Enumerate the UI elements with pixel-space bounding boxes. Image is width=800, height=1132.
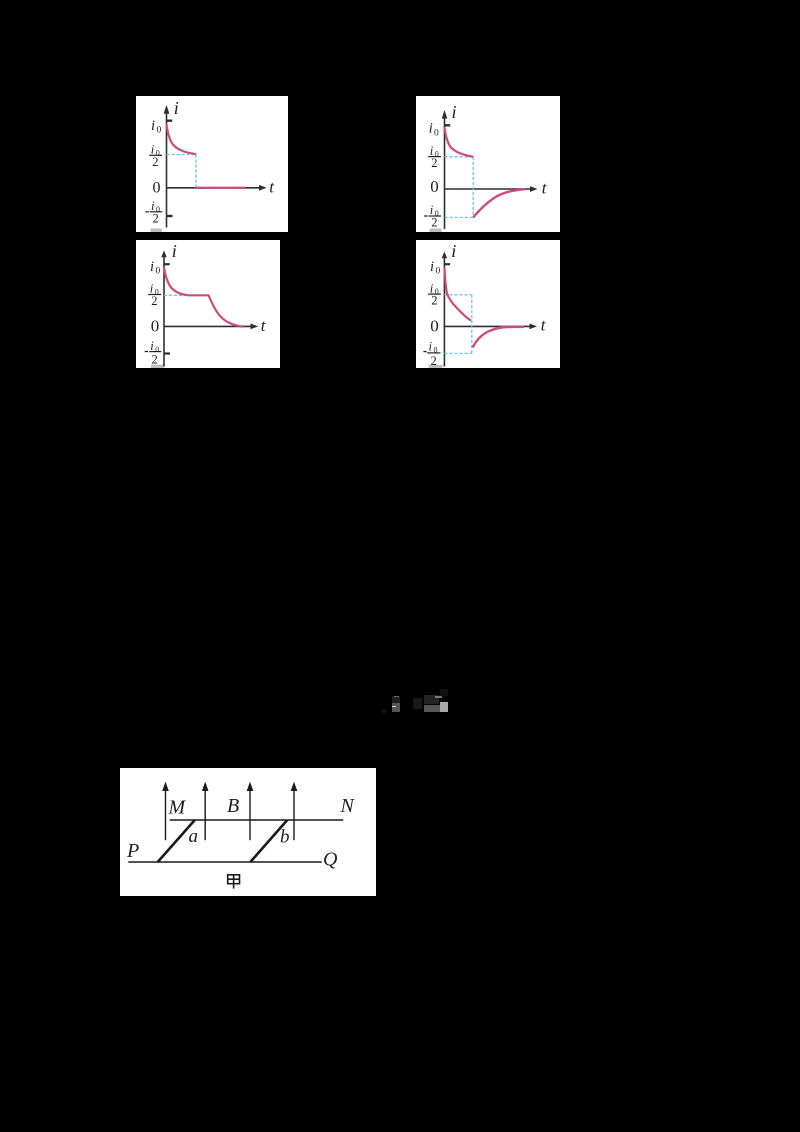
tick i0 (166, 119, 172, 121)
faint formula fragment: gray block left (392, 703, 400, 712)
rod a (158, 820, 195, 862)
svg-text:B: B (227, 795, 239, 817)
faint formula fragment: middle faint glyphs (413, 698, 423, 709)
svg-text:0: 0 (156, 267, 161, 277)
faint formula fragment: right glyph group (424, 695, 440, 704)
current decay curve (167, 124, 197, 154)
svg-text:N: N (340, 795, 356, 817)
svg-text:i: i (429, 121, 433, 137)
svg-text:a: a (189, 826, 199, 847)
tick i0 (444, 263, 450, 265)
svg-text:2: 2 (152, 155, 158, 169)
faint formula fragment: white dash (392, 706, 396, 708)
label -i0/2 fraction (145, 351, 148, 353)
y axis (163, 257, 165, 367)
faint formula fragment: bright box (440, 702, 448, 712)
gray remnant box (430, 229, 442, 233)
blue dashed -i0/2 (444, 352, 471, 354)
tick -i0/2 (166, 215, 172, 217)
faint formula fragment: dark glyph left (392, 696, 401, 703)
svg-text:i: i (150, 259, 154, 275)
blue dashed i0/2 (445, 156, 474, 158)
decay curve with plateau (164, 267, 240, 326)
steep decay curve (444, 267, 471, 321)
caption jia (228, 875, 240, 889)
blue dashed i0/2 (164, 294, 189, 296)
blue dashed vertical (471, 295, 473, 354)
svg-text:0: 0 (436, 267, 441, 277)
blue dashed level line (167, 154, 197, 156)
y axis (443, 258, 445, 367)
faint formula fragment: dim patch top-right (440, 689, 448, 696)
x axis (445, 188, 531, 190)
x axis (164, 325, 251, 327)
svg-text:0: 0 (157, 126, 162, 136)
y axis (166, 112, 168, 228)
svg-text:i: i (429, 340, 433, 354)
field arrow 4 (291, 782, 298, 841)
faint formula fragment: light speck row left (394, 696, 399, 697)
rail diagram panel (120, 768, 376, 896)
tick -i0/2 (164, 352, 170, 354)
svg-text:2: 2 (151, 294, 157, 308)
svg-text:i: i (430, 259, 434, 275)
svg-text:i: i (452, 102, 457, 122)
tick i0 (444, 124, 450, 126)
gray remnant box (151, 228, 162, 232)
svg-text:0: 0 (153, 180, 161, 197)
svg-text:2: 2 (431, 156, 437, 170)
faint formula fragment: light speck row right (435, 696, 442, 698)
svg-text:0: 0 (434, 129, 439, 139)
svg-text:i: i (451, 241, 456, 261)
svg-text:0: 0 (430, 316, 439, 335)
blue dashed -i0/2 (445, 217, 474, 219)
decay curve above axis (445, 127, 474, 157)
recovery curve below axis (473, 327, 524, 348)
gray remnant box (429, 365, 443, 368)
field arrow 2 (202, 782, 209, 841)
svg-text:2: 2 (153, 211, 159, 225)
svg-text:M: M (168, 796, 187, 818)
graph panel C (136, 240, 280, 368)
x axis (444, 325, 529, 327)
graph panel B (416, 96, 560, 232)
svg-text:0: 0 (430, 177, 439, 196)
label -i0/2 fraction (424, 215, 427, 217)
svg-text:Q: Q (323, 849, 338, 871)
svg-text:0: 0 (151, 316, 160, 335)
y axis (444, 117, 446, 229)
svg-text:2: 2 (431, 354, 437, 368)
svg-text:i: i (151, 118, 155, 134)
blue dashed vertical (195, 155, 197, 188)
faint formula fragment: gray block right (424, 705, 440, 713)
blue dashed i0/2 (444, 294, 471, 296)
svg-text:2: 2 (431, 294, 437, 308)
rail PQ (128, 861, 321, 863)
svg-text:b: b (280, 827, 290, 848)
svg-text:i: i (174, 98, 179, 118)
svg-text:i: i (172, 241, 177, 261)
gray remnant box (151, 365, 164, 368)
pink zero segment (196, 187, 246, 189)
blue dashed vertical (472, 157, 474, 218)
recovery curve below axis (473, 189, 525, 217)
field arrow 1 (162, 782, 169, 841)
rail MN (170, 819, 343, 821)
svg-text:2: 2 (431, 216, 437, 230)
graph panel A (136, 96, 288, 232)
label -i0/2 fraction (423, 351, 426, 353)
field arrow 3 (247, 782, 254, 841)
x axis (167, 187, 260, 189)
svg-text:2: 2 (152, 352, 158, 366)
faint formula fragment: dim speck far left (382, 709, 386, 713)
label -i0/2 fraction (146, 211, 149, 213)
svg-text:P: P (126, 840, 139, 862)
pink zero segment (240, 325, 245, 327)
tick i0 (164, 263, 170, 265)
rod b (250, 820, 287, 862)
graph panel D (416, 240, 560, 368)
